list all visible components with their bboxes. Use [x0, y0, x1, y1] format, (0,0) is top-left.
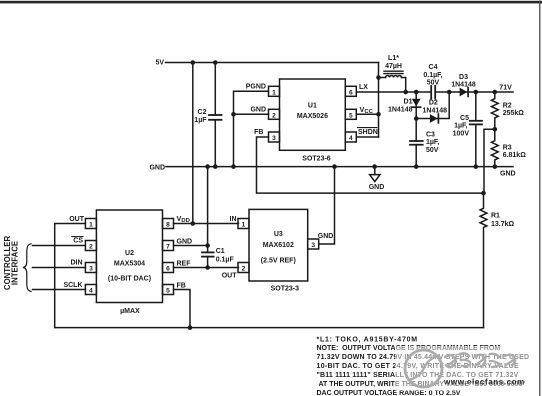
wire VCC pin5	[356, 113, 378, 115]
svg-text:OUT: OUT	[222, 273, 238, 280]
svg-text:6.81kΩ: 6.81kΩ	[503, 152, 527, 159]
svg-text:0.1µF: 0.1µF	[216, 257, 235, 264]
svg-text:71V: 71V	[499, 84, 512, 91]
node junction R2/R3	[493, 127, 498, 132]
svg-text:LX: LX	[359, 84, 368, 91]
svg-text:1: 1	[242, 222, 246, 229]
svg-text:GND: GND	[177, 238, 193, 245]
op-amp U3 MAX6102 body	[249, 209, 308, 281]
svg-text:2: 2	[242, 266, 246, 273]
svg-text:DIN: DIN	[70, 260, 82, 267]
wire REF row	[174, 267, 239, 269]
svg-text:6: 6	[349, 89, 353, 96]
svg-text:REF: REF	[177, 260, 192, 267]
svg-text:GND: GND	[369, 184, 385, 191]
pin 6 LX	[345, 86, 356, 96]
node junction pin2/drop	[231, 112, 236, 117]
svg-text:1µF: 1µF	[194, 117, 207, 124]
pin 1 PGND	[269, 86, 280, 96]
resistor R2 255k	[491, 92, 524, 129]
pin 1 OUT	[85, 219, 96, 229]
pin 6 REF	[163, 263, 174, 273]
node junction FB line / R1	[481, 191, 486, 196]
pin 8 VDD	[163, 219, 174, 229]
pin 2 OUT	[238, 263, 249, 273]
svg-text:GND: GND	[500, 171, 516, 178]
op-amp U1 MAX5026 body	[280, 79, 346, 150]
svg-text:3: 3	[272, 135, 276, 142]
svg-text:3: 3	[311, 242, 315, 249]
svg-text:C2: C2	[198, 109, 207, 116]
wire 5V drop to VDD	[192, 63, 194, 224]
wire SHDN pin4	[356, 136, 378, 138]
pin 7 GND	[163, 241, 174, 251]
wire CS	[33, 245, 86, 247]
svg-text:255kΩ: 255kΩ	[503, 110, 525, 117]
pin 2 GND	[269, 109, 280, 119]
node junction D1/D2/C3	[414, 116, 419, 121]
wire LX output row	[356, 91, 431, 93]
wire 5V rail	[166, 62, 379, 64]
wire U1 GND pin2	[234, 113, 269, 115]
svg-text:1µF,: 1µF,	[426, 139, 439, 146]
op-amp U2 MAX5304 body	[96, 210, 162, 303]
svg-text:5V: 5V	[155, 60, 164, 67]
pin 3 DIN	[85, 263, 96, 273]
capacitor C4 0.1uF 50V	[423, 64, 442, 99]
svg-text:D3: D3	[459, 74, 468, 81]
svg-text:µMAX: µMAX	[120, 308, 140, 315]
svg-text:0.1µF,: 0.1µF,	[423, 72, 442, 79]
svg-text:D1: D1	[404, 98, 413, 105]
node junction 5V/C2	[191, 60, 196, 65]
svg-text:www.elecfans.com: www.elecfans.com	[443, 378, 525, 387]
svg-text:C1: C1	[216, 248, 225, 255]
svg-text:1: 1	[89, 222, 93, 229]
pin 4 SCLK	[85, 285, 96, 295]
capacitor C3 1uF 50V	[410, 119, 439, 167]
node GND label right	[500, 171, 516, 178]
svg-text:FB: FB	[254, 129, 263, 136]
svg-text:L1*: L1*	[388, 55, 399, 62]
svg-text:IN: IN	[230, 216, 237, 223]
svg-text:(10-BIT DAC): (10-BIT DAC)	[108, 275, 151, 282]
svg-text:100V: 100V	[453, 130, 470, 137]
svg-text:SOT23-3: SOT23-3	[271, 285, 300, 292]
diode D3 1N4148 (horizontal, pointing right)	[451, 74, 476, 96]
svg-text:SOT23-6: SOT23-6	[302, 156, 331, 163]
svg-text:C5: C5	[460, 115, 469, 122]
diode D2 1N4148 (horizontal, pointing right)	[416, 92, 449, 123]
svg-text:5: 5	[349, 112, 353, 119]
node GND label left	[149, 164, 165, 171]
svg-text:MAX5304: MAX5304	[114, 260, 145, 267]
svg-text:C3: C3	[426, 131, 435, 138]
svg-text:R3: R3	[503, 144, 512, 151]
svg-text:4: 4	[89, 288, 93, 295]
pin 5 FB	[163, 285, 174, 295]
resistor R1 13.7k	[480, 193, 514, 328]
svg-text:FB: FB	[177, 282, 186, 289]
wire GND pin7 row	[174, 245, 208, 247]
svg-text:2: 2	[272, 112, 276, 119]
pin 5 VCC	[345, 109, 356, 119]
svg-text:4: 4	[349, 135, 353, 142]
inductor L1 47uH	[379, 55, 406, 92]
svg-text:VDD: VDD	[177, 214, 190, 224]
pin 2 CS	[85, 241, 96, 251]
svg-text:13.7kΩ: 13.7kΩ	[491, 221, 515, 228]
wire DIN	[33, 267, 86, 269]
capacitor C1 0.1uF	[202, 167, 234, 270]
svg-text:MAX6102: MAX6102	[263, 242, 294, 249]
svg-text:3: 3	[89, 266, 93, 273]
diode D1 1N4148 (vertical, pointing down)	[388, 92, 421, 119]
svg-text:1µF,: 1µF,	[454, 123, 467, 130]
node 71V label	[499, 84, 512, 91]
svg-text:8: 8	[166, 222, 170, 229]
capacitor C5 1uF 100V	[453, 92, 482, 167]
svg-text:SCLK: SCLK	[63, 282, 82, 289]
wire 5V vertical to VCC and SHDN	[378, 63, 380, 138]
controller interface brace	[23, 244, 31, 292]
svg-text:R2: R2	[503, 103, 512, 110]
resistor R3 6.81k	[491, 129, 526, 166]
svg-text:5: 5	[166, 288, 170, 295]
svg-text:50V: 50V	[427, 80, 440, 87]
wire U1 PGND to GND drop	[234, 91, 269, 166]
svg-text:*L1: TOKO, A915BY-470M: *L1: TOKO, A915BY-470M	[317, 336, 418, 343]
right border line	[539, 1, 541, 396]
wire SCLK	[33, 289, 86, 291]
svg-text:U3: U3	[274, 231, 283, 238]
svg-text:PGND: PGND	[246, 84, 266, 91]
svg-text:U2: U2	[125, 250, 134, 257]
wire bottom feedback rail	[55, 224, 484, 328]
svg-text:47µH: 47µH	[385, 63, 402, 70]
svg-text:50V: 50V	[426, 147, 439, 154]
ground symbol	[369, 167, 385, 191]
wire VDD row	[174, 223, 239, 225]
svg-text:C4: C4	[429, 64, 438, 71]
svg-text:R1: R1	[491, 212, 500, 219]
svg-text:MAX5026: MAX5026	[297, 113, 328, 120]
capacitor C2	[194, 63, 221, 167]
svg-text:GND: GND	[318, 233, 334, 240]
node 5V label	[155, 60, 164, 67]
svg-text:OUT: OUT	[69, 216, 85, 223]
svg-text:7: 7	[166, 244, 170, 251]
wire U3 GND to rail	[319, 167, 335, 244]
wire U1 FB to feedback line	[257, 137, 484, 193]
svg-text:(2.5V REF): (2.5V REF)	[261, 257, 296, 264]
node GND rail junction dots	[205, 164, 210, 169]
node junction inductor left	[376, 75, 381, 80]
pin 4 SHDN	[345, 132, 356, 142]
svg-text:6: 6	[166, 266, 170, 273]
pin 1 IN	[238, 219, 249, 229]
svg-text:U1: U1	[308, 103, 317, 110]
svg-text:1: 1	[272, 89, 276, 96]
node junctions on LX row	[403, 90, 408, 95]
svg-text:GND: GND	[250, 107, 266, 114]
node junction FB U2 on bottom rail	[188, 325, 193, 330]
svg-text:D2: D2	[429, 100, 438, 107]
pin 3 FB	[269, 132, 280, 142]
svg-text:1N4148: 1N4148	[423, 108, 448, 115]
svg-text:CS: CS	[73, 237, 83, 244]
wire GND rail	[166, 166, 513, 168]
svg-text:1N4148: 1N4148	[388, 106, 413, 113]
svg-text:2: 2	[89, 244, 93, 251]
note text block	[317, 336, 530, 396]
wire FB pin5 of U2	[174, 290, 191, 328]
watermark overlay	[395, 346, 532, 391]
wire feedback tap to R1	[484, 129, 495, 193]
top border bar	[0, 1, 542, 4]
svg-text:INTERFACE: INTERFACE	[11, 241, 20, 285]
svg-text:1N4148: 1N4148	[451, 82, 476, 89]
pin 3 GND	[308, 239, 319, 249]
node junction VCC	[376, 112, 381, 117]
svg-text:GND: GND	[149, 164, 165, 171]
svg-text:SHDN: SHDN	[358, 129, 378, 136]
